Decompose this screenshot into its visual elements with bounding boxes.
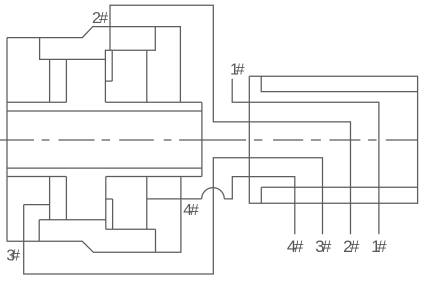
svg-text:2#: 2#	[343, 237, 360, 256]
svg-text:3#: 3#	[315, 237, 332, 256]
svg-text:2#: 2#	[92, 10, 108, 27]
svg-text:4#: 4#	[287, 237, 304, 256]
svg-text:4#: 4#	[183, 202, 199, 219]
svg-text:3#: 3#	[6, 248, 20, 265]
svg-text:1#: 1#	[371, 237, 387, 256]
svg-text:1#: 1#	[230, 62, 245, 79]
